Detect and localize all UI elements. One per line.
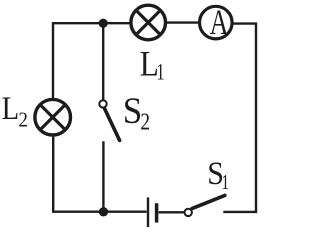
- wire middle branch lower (below S2 to bottom junction): [102, 141, 104, 212]
- switch S2 blade: [105, 109, 120, 140]
- wire L1 to ammeter: [166, 21, 200, 23]
- svg-text:A: A: [210, 2, 229, 42]
- svg-text:1: 1: [156, 59, 164, 84]
- battery short plate (negative): [155, 203, 159, 222]
- wire ammeter to right side, down to switch S1 stub: [223, 24, 256, 212]
- wire middle branch upper (junction to S2): [102, 23, 104, 100]
- ammeter U1 (A): [200, 2, 233, 42]
- svg-text:S: S: [123, 91, 143, 132]
- node junction bottom (dot): [99, 207, 108, 216]
- svg-text:2: 2: [140, 110, 150, 136]
- switch S2 pivot circle: [99, 100, 106, 107]
- switch S1 blade: [192, 195, 225, 208]
- battery long plate (positive): [147, 197, 149, 227]
- wire bottom-left (left vertical lower + bottom horizontal to battery): [53, 137, 146, 212]
- svg-text:1: 1: [222, 170, 230, 194]
- wire top-left (left vertical upper + top horizontal to lamp L1): [53, 23, 130, 98]
- lamp L1: [131, 5, 166, 40]
- svg-text:L: L: [2, 91, 20, 127]
- wire battery to S1: [159, 211, 185, 213]
- switch S1 pivot circle: [185, 209, 192, 216]
- lamp L2: [35, 99, 71, 135]
- svg-text:2: 2: [18, 108, 28, 132]
- node junction top (dot): [99, 19, 108, 28]
